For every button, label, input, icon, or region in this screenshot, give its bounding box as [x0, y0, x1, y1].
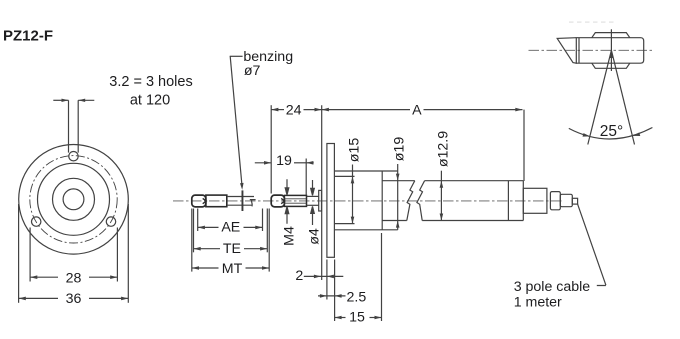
dim dia12.9 arrows: [440, 181, 444, 221]
spindle rod (extended): [206, 195, 227, 207]
bolt hole lower-left: [32, 217, 41, 226]
detail center line: [529, 49, 653, 51]
dim 2 arrows: [314, 275, 334, 279]
tube top left segment: [382, 180, 415, 182]
faint hidden line: [569, 21, 614, 23]
connector block: [550, 192, 560, 210]
svg-text:36: 36: [66, 291, 82, 307]
svg-text:PZ12-F: PZ12-F: [3, 28, 53, 45]
svg-text:ø7: ø7: [244, 63, 261, 79]
dim dia15 arrows: [351, 176, 355, 223]
dim 36 extension left: [18, 204, 20, 303]
dim dia4 arrow top: [311, 180, 315, 195]
dim AE arrows: [198, 226, 263, 230]
svg-text:24: 24: [286, 102, 302, 118]
svg-text:A: A: [412, 102, 422, 118]
benzing leader line: [230, 56, 242, 186]
svg-text:2.5: 2.5: [347, 289, 367, 305]
dim dia15 line: [352, 165, 354, 224]
connector bottom hat: [592, 63, 630, 68]
M4 threaded rod: [284, 195, 306, 206]
dim 24 arrow right: [315, 108, 322, 112]
dim 24 line left: [271, 109, 284, 111]
end cap section: [523, 188, 547, 213]
dim 24 arrow left: [271, 108, 278, 112]
pin line left: [68, 100, 70, 152]
dim 2 line: [304, 275, 344, 277]
dim A ext right: [523, 110, 525, 181]
dim 19 tail right: [306, 162, 314, 164]
dim 28 arrow right: [110, 275, 117, 279]
thread root lines: [284, 199, 306, 203]
rod dia4 bottom: [307, 204, 319, 206]
body divider: [381, 171, 383, 230]
dim 19 line mid: [294, 162, 306, 164]
svg-text:25°: 25°: [600, 123, 623, 140]
body inner dia15 bottom: [334, 223, 354, 225]
mounting flange: [327, 144, 335, 258]
cone line left: [588, 50, 612, 144]
connector double line: [578, 38, 580, 64]
dim 3.2 right arrow: [78, 99, 85, 102]
dim 36 arrow left: [19, 297, 26, 301]
cable wedge: [557, 38, 577, 64]
tube divider: [507, 181, 509, 221]
svg-text:ø19: ø19: [392, 137, 408, 162]
pin line right: [77, 100, 79, 152]
dim TE ext left: [193, 209, 195, 253]
body inner dia15 top: [334, 175, 354, 177]
svg-text:ø12.9: ø12.9: [436, 131, 452, 167]
dim AE ext left: [197, 209, 199, 232]
svg-text:3.2 = 3 holes: 3.2 = 3 holes: [109, 74, 192, 90]
svg-text:3 pole cable: 3 pole cable: [514, 279, 591, 295]
svg-text:AE: AE: [221, 220, 240, 236]
benzing leader tick: [230, 55, 243, 57]
dim A arrow right: [515, 108, 522, 112]
svg-text:15: 15: [349, 310, 365, 326]
thin rod bottom line: [227, 204, 252, 206]
dim AE line: [198, 226, 263, 228]
dim 2.5 arrows: [320, 294, 342, 298]
dim MT ext left: [191, 209, 193, 272]
dim 36 extension right: [127, 204, 129, 303]
dim 15 line left: [335, 317, 346, 319]
dim 15 arrow left: [335, 316, 342, 320]
svg-text:1 meter: 1 meter: [514, 294, 562, 310]
dim 36 arrow right: [121, 297, 128, 301]
dim 28 line right: [89, 276, 117, 278]
dim MT ext right: [268, 209, 270, 272]
dim MT arrows: [192, 266, 269, 270]
dim 2.5 ext right: [334, 260, 336, 322]
dim 15 ext right: [381, 233, 383, 321]
break zigzag left: [407, 181, 415, 221]
connector body: [576, 38, 643, 64]
dim 15 arrow right: [375, 316, 382, 320]
svg-text:19: 19: [276, 153, 292, 169]
dim dia12.9 line: [440, 171, 442, 221]
rod dia4 top: [307, 195, 319, 197]
bolt hole lower-right: [106, 217, 115, 226]
dim 28 line left: [30, 276, 58, 278]
center line: [173, 200, 562, 202]
break zigzag right: [417, 181, 425, 221]
flange outer circle: [19, 145, 129, 255]
svg-text:MT: MT: [222, 261, 243, 277]
dim dia4 arrow bottom: [311, 206, 315, 225]
arc arrow right: [633, 133, 641, 137]
svg-text:ø15: ø15: [347, 138, 363, 163]
dim 24 line right: [304, 109, 322, 111]
dim 19 arrow right: [306, 161, 313, 165]
dim 2.5 ext left: [326, 260, 328, 300]
cone line right: [611, 50, 634, 144]
vertex tick: [610, 29, 612, 71]
tip cone mark (main): [281, 198, 284, 203]
dim 3.2 right line: [78, 99, 94, 101]
dim dia19 line: [397, 164, 399, 171]
dim AE ext right: [262, 209, 264, 232]
tube dia12.9 bottom: [422, 220, 523, 222]
dim 28 extension right: [116, 228, 118, 282]
dim 19 arrow left: [264, 161, 271, 165]
body outer top: [334, 170, 397, 172]
dim 19 ext right: [305, 159, 307, 196]
svg-text:TE: TE: [223, 241, 241, 257]
dim 19 line left: [255, 162, 271, 164]
tube dia12.9 top: [425, 180, 524, 182]
dim A ext left (shared): [321, 105, 323, 280]
dim A line left: [322, 109, 410, 111]
dim 2.5 line: [318, 295, 346, 297]
dim MT line: [192, 267, 269, 269]
angle arc: [569, 128, 653, 139]
dim 3.2 left arrow: [62, 99, 69, 102]
dim 36 line right: [89, 297, 128, 299]
dim 36 line left: [19, 297, 58, 299]
dim TE ext right: [266, 209, 268, 253]
svg-text:ø4: ø4: [307, 228, 323, 245]
tube bottom left segment: [382, 220, 407, 222]
dim 3.2 left line: [53, 99, 68, 101]
body right edge: [397, 171, 399, 230]
dim dia19 arrows: [396, 174, 400, 228]
cable nipple: [572, 198, 577, 204]
connector top hat: [592, 33, 630, 38]
vertex arrow: [610, 51, 614, 59]
dim TE line: [194, 248, 268, 250]
tube end: [522, 181, 524, 221]
dim 24 ext left (shared with 19): [270, 105, 272, 193]
center hole: [63, 189, 84, 210]
arc arrow left: [583, 133, 591, 137]
flange inner circle: [53, 178, 95, 220]
body outer bottom: [334, 229, 397, 231]
benzing leader arrow: [240, 183, 244, 190]
dim M4 arrow bottom: [285, 207, 289, 224]
dim TE arrows: [194, 247, 268, 251]
flange body circle: [38, 163, 110, 235]
tip cone mark: [203, 198, 207, 203]
probe tip capsule (extended position): [192, 195, 206, 207]
probe tip capsule (main): [271, 195, 284, 207]
dim A line right: [424, 109, 523, 111]
dim M4 arrow top: [285, 179, 289, 195]
dim 28 arrow left: [30, 275, 37, 279]
connector sleeve: [560, 194, 572, 206]
dim 28 extension left: [29, 228, 31, 282]
rod break jog: [250, 200, 256, 207]
bolt circle (dash-dot): [30, 156, 117, 243]
dim 15 line right: [370, 317, 382, 319]
svg-text:2: 2: [295, 268, 303, 284]
svg-text:at 120: at 120: [130, 93, 170, 109]
cable leader line: [577, 204, 606, 286]
benzing circlip (at flange): [319, 190, 322, 211]
svg-text:M4: M4: [282, 226, 298, 246]
svg-text:28: 28: [66, 271, 82, 287]
benzing circlip (left): [242, 190, 244, 211]
dim A arrow left: [322, 108, 329, 112]
thin rod top line: [227, 196, 254, 198]
bolt hole top: [69, 152, 78, 161]
